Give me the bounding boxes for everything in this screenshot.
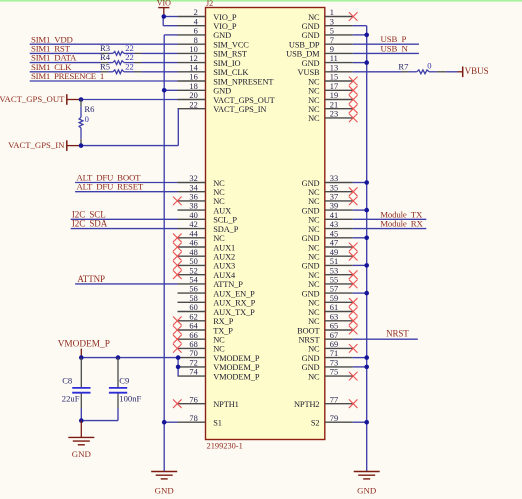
pin 2 (VIO_P) — [178, 8, 237, 22]
svg-text:59: 59 — [330, 294, 338, 303]
pin 34 (NC) — [178, 183, 226, 197]
svg-text:NC: NC — [213, 197, 225, 206]
wire pin 78 S1 to bus — [164, 421, 177, 423]
pin 33 (GND) — [302, 174, 353, 188]
junction S2/bus — [364, 420, 369, 425]
pin 15 (NC) — [308, 73, 357, 87]
junction S1/bus — [162, 420, 167, 425]
svg-text:NC: NC — [308, 105, 320, 114]
ground symbol below C8 — [68, 421, 94, 459]
wire pin 39 GND to bus — [353, 209, 367, 211]
svg-text:NC: NC — [308, 243, 320, 252]
svg-text:GND: GND — [302, 262, 320, 271]
wire SIM1__RST to R3 — [30, 52, 101, 54]
wire R4 to pin — [142, 62, 178, 64]
wire VIO to pin 4 — [163, 17, 177, 26]
svg-text:7: 7 — [330, 36, 334, 45]
pin 39 (GND) — [302, 202, 353, 216]
net label Module_RX — [380, 219, 423, 229]
svg-text:NC: NC — [308, 87, 320, 96]
net label ATTNP — [77, 274, 105, 284]
pin 46 (AUX1) — [173, 239, 235, 253]
wire pin 79 S2 to bus — [353, 421, 367, 423]
svg-text:NC: NC — [213, 336, 225, 345]
svg-text:NRST: NRST — [386, 329, 409, 339]
pin 75 (NC) — [308, 368, 357, 382]
svg-text:USB_DP: USB_DP — [289, 41, 320, 50]
svg-text:NC: NC — [213, 345, 225, 354]
pin 61 (NC) — [308, 303, 357, 317]
pin 56 (AUX_EN_P) — [178, 285, 256, 299]
junction pin18/bus — [162, 88, 167, 93]
wire pin 5 GND to bus — [353, 34, 367, 36]
svg-text:2199230-1: 2199230-1 — [207, 442, 243, 451]
wire pin 45 GND to bus — [353, 237, 367, 239]
wire I2C_SCL to pin 40 — [71, 218, 178, 220]
junction R6 top — [79, 97, 84, 102]
svg-text:GND: GND — [213, 87, 231, 96]
svg-text:79: 79 — [330, 414, 338, 423]
pin 23 (NC) — [308, 110, 357, 124]
svg-text:NC: NC — [308, 77, 320, 86]
net label SIM1_VDD — [31, 34, 73, 44]
svg-text:AUX: AUX — [213, 206, 231, 215]
wire pin 3 GND to right bus — [353, 25, 367, 27]
svg-text:RX_P: RX_P — [213, 317, 234, 326]
junction pin 51/bus — [364, 263, 369, 268]
top border line — [0, 0, 522, 2]
svg-text:74: 74 — [189, 368, 198, 377]
svg-text:GND: GND — [302, 354, 320, 363]
pin 59 (NC) — [308, 294, 357, 308]
ground symbol left bus — [151, 472, 177, 496]
net label I2C_SDA — [72, 219, 108, 229]
svg-text:SIM_VCC: SIM_VCC — [213, 41, 249, 50]
svg-text:0: 0 — [427, 61, 431, 71]
wire ATTNP to pin 54 — [75, 283, 177, 285]
resistor R4 22 — [100, 52, 142, 64]
pin 13 (VUSB) — [298, 63, 353, 77]
svg-text:AUX2: AUX2 — [213, 253, 235, 262]
svg-text:R6: R6 — [84, 104, 95, 114]
svg-text:SIM1 PRESENCE 1: SIM1 PRESENCE 1 — [31, 71, 104, 81]
junction pin 33/bus — [364, 180, 369, 185]
pin 52 (AUX4) — [173, 266, 236, 280]
svg-text:13: 13 — [330, 63, 338, 72]
pin 48 (AUX2) — [173, 248, 235, 262]
svg-text:NC: NC — [213, 234, 225, 243]
svg-text:SIM_CLK: SIM_CLK — [213, 68, 248, 77]
junction pin70 — [176, 355, 181, 360]
svg-text:NC: NC — [213, 179, 225, 188]
svg-text:50: 50 — [189, 257, 197, 266]
pin 16 (SIM_NPRESENT) — [178, 73, 274, 87]
svg-text:51: 51 — [330, 257, 338, 266]
power port VMODEM_P — [58, 340, 110, 358]
net label ALT_DFU_BOOT — [77, 173, 142, 183]
junction pin72 — [176, 365, 181, 370]
svg-text:BOOT: BOOT — [297, 326, 319, 335]
svg-text:11: 11 — [330, 54, 338, 63]
pin 1 (NC) — [308, 8, 357, 22]
wire SIM1__DATA to R4 — [30, 62, 101, 64]
junction pin 57/bus — [364, 291, 369, 296]
svg-text:63: 63 — [330, 312, 338, 321]
junction C8 bottom — [79, 418, 84, 423]
wire NRST pin 67 — [353, 338, 418, 340]
pin 73 (GND) — [302, 359, 353, 373]
net label USB_N — [381, 43, 409, 53]
svg-text:48: 48 — [189, 248, 197, 257]
pin 60 (AUX_TX_P) — [178, 303, 256, 317]
port VACT_GPS_OUT — [0, 94, 81, 105]
net label ALT_DFU_RESET — [77, 182, 144, 192]
pin 14 (SIM_CLK) — [178, 63, 249, 77]
pin 6 (GND) — [178, 27, 232, 41]
svg-text:42: 42 — [189, 220, 197, 229]
pin 37 (NC) — [308, 193, 357, 207]
pin 63 (NC) — [308, 312, 357, 326]
designator J2 — [206, 0, 213, 8]
pin 64 (TX_P) — [173, 322, 233, 336]
wire R3 to pin — [142, 52, 178, 54]
wire pin 6 GND to left ground bus — [164, 34, 177, 36]
svg-text:68: 68 — [189, 340, 197, 349]
svg-text:57: 57 — [330, 285, 338, 294]
wire ALT_DFU_BOOT to pin 32 — [75, 182, 177, 184]
pin 19 (NC) — [308, 91, 357, 105]
wire R5 to pin — [142, 71, 178, 73]
svg-text:VACT_GPS_IN: VACT_GPS_IN — [213, 105, 266, 114]
pin 17 (NC) — [308, 82, 357, 96]
svg-text:76: 76 — [189, 395, 197, 404]
svg-text:S2: S2 — [311, 419, 320, 428]
svg-text:ATTN_P: ATTN_P — [213, 280, 243, 289]
svg-text:GND: GND — [155, 486, 174, 496]
svg-text:NC: NC — [213, 188, 225, 197]
svg-text:ALT DFU RESET: ALT DFU RESET — [77, 182, 144, 192]
svg-text:GND: GND — [357, 486, 376, 496]
svg-text:NC: NC — [308, 197, 320, 206]
svg-text:VMODEM_P: VMODEM_P — [58, 340, 110, 350]
svg-text:VACT_GPS_IN: VACT_GPS_IN — [8, 140, 65, 150]
svg-text:36: 36 — [189, 193, 197, 202]
svg-text:SIM_NPRESENT: SIM_NPRESENT — [213, 77, 273, 86]
svg-text:ATTNP: ATTNP — [77, 274, 105, 284]
svg-text:44: 44 — [189, 229, 198, 238]
svg-text:C8: C8 — [62, 376, 72, 386]
svg-text:40: 40 — [189, 211, 197, 220]
wire VMODEM_P rail — [81, 357, 177, 359]
junction pin 71/bus — [364, 355, 369, 360]
svg-text:SIM_RST: SIM_RST — [213, 50, 247, 59]
svg-text:AUX3: AUX3 — [213, 262, 235, 271]
svg-text:NC: NC — [308, 225, 320, 234]
svg-text:10: 10 — [189, 45, 197, 54]
svg-text:NC: NC — [308, 372, 320, 381]
svg-text:AUX_RX_P: AUX_RX_P — [213, 299, 255, 308]
svg-text:NC: NC — [308, 317, 320, 326]
wire VACT_GPS_IN to pin 22 — [81, 109, 179, 146]
pin 55 (NC) — [308, 276, 357, 290]
pin 3 (GND) — [302, 17, 353, 31]
svg-text:AUX1: AUX1 — [213, 243, 235, 252]
capacitor C9 100nF — [109, 358, 142, 421]
svg-text:71: 71 — [330, 349, 338, 358]
resistor R3 22 — [100, 43, 142, 55]
svg-text:NRST: NRST — [298, 336, 319, 345]
svg-text:NC: NC — [308, 299, 320, 308]
svg-text:49: 49 — [330, 248, 338, 257]
svg-text:GND: GND — [302, 363, 320, 372]
svg-text:60: 60 — [189, 303, 197, 312]
svg-text:43: 43 — [330, 220, 338, 229]
wire Module_RX pin 43 — [353, 228, 427, 230]
svg-text:33: 33 — [330, 174, 338, 183]
pin 43 (NC) — [308, 220, 353, 234]
pin 62 (RX_P) — [173, 312, 233, 326]
pin 69 (NC) — [308, 340, 357, 354]
svg-text:AUX_TX_P: AUX_TX_P — [213, 308, 255, 317]
svg-text:R5: R5 — [100, 61, 110, 71]
pin 53 (NC) — [308, 266, 357, 280]
svg-text:67: 67 — [330, 331, 338, 340]
pin 5 (GND) — [302, 27, 353, 41]
junction C8 tap — [79, 355, 84, 360]
pin 4 (VIO_P) — [178, 17, 237, 31]
pin 47 (NC) — [308, 239, 357, 253]
wire pin 13 VUSB to R7 — [353, 71, 402, 73]
svg-text:75: 75 — [330, 368, 338, 377]
svg-text:22: 22 — [189, 100, 197, 109]
resistor R5 22 — [100, 61, 142, 73]
svg-text:18: 18 — [189, 82, 197, 91]
svg-text:USB N: USB N — [381, 43, 409, 53]
svg-text:GND: GND — [302, 206, 320, 215]
svg-text:16: 16 — [189, 73, 197, 82]
svg-text:NC: NC — [308, 280, 320, 289]
svg-text:VMODEM_P: VMODEM_P — [213, 363, 260, 372]
svg-text:17: 17 — [330, 82, 338, 91]
svg-text:NC: NC — [308, 114, 320, 123]
svg-text:S1: S1 — [213, 419, 222, 428]
wire SIM1__CLK to R5 — [30, 71, 101, 73]
svg-text:72: 72 — [189, 359, 197, 368]
svg-text:NC: NC — [308, 216, 320, 225]
svg-text:34: 34 — [189, 183, 198, 192]
pin 38 (AUX) — [178, 202, 232, 216]
wire pin 18 GND to bus — [164, 89, 177, 91]
svg-text:J2: J2 — [206, 0, 213, 8]
svg-text:55: 55 — [330, 276, 338, 285]
connector J2 body (2199230-1) — [206, 8, 325, 440]
svg-text:3: 3 — [330, 17, 334, 26]
pin 66 (NC) — [173, 331, 225, 345]
svg-text:NC: NC — [308, 13, 320, 22]
net label SIM1_PRESENCE_1 — [31, 71, 104, 81]
svg-text:9: 9 — [330, 45, 334, 54]
junction R6 bottom — [79, 143, 84, 148]
wire pin 51 GND to bus — [353, 264, 367, 266]
pin 77 (NPTH2) — [294, 395, 357, 409]
svg-text:15: 15 — [330, 73, 338, 82]
pin 57 (GND) — [302, 285, 353, 299]
port VBUS — [458, 66, 489, 77]
svg-text:NC: NC — [308, 308, 320, 317]
wire R7 to VBUS — [446, 71, 458, 73]
svg-text:VIO: VIO — [157, 0, 171, 8]
svg-text:VIO_P: VIO_P — [213, 13, 237, 22]
svg-text:20: 20 — [189, 91, 197, 100]
svg-text:TX_P: TX_P — [213, 326, 233, 335]
svg-text:VBUS: VBUS — [465, 66, 489, 76]
svg-text:37: 37 — [330, 193, 338, 202]
svg-text:VMODEM_P: VMODEM_P — [213, 372, 260, 381]
svg-text:66: 66 — [189, 331, 197, 340]
wire USB_P pin 7 — [353, 43, 419, 45]
pin 49 (NC) — [308, 248, 357, 262]
svg-text:61: 61 — [330, 303, 338, 312]
pin 79 (S2) — [311, 414, 353, 428]
junction C9 tap — [116, 355, 121, 360]
svg-text:NC: NC — [308, 271, 320, 280]
wire USB_N pin 9 — [353, 52, 419, 54]
junction pin 11/bus — [364, 60, 369, 65]
wire joining pins 70 72 74 — [177, 358, 179, 377]
pin 65 (BOOT) — [297, 322, 357, 336]
svg-text:56: 56 — [189, 285, 197, 294]
pin 67 (NRST) — [298, 331, 352, 345]
svg-text:64: 64 — [189, 322, 198, 331]
pin 35 (NC) — [308, 183, 357, 197]
wire VACT_GPS_OUT to pin 20 — [81, 99, 178, 101]
wire SIM1_PRESENCE_1 to pin 16 — [30, 80, 178, 82]
wire pin 57 GND to bus — [353, 292, 367, 294]
svg-text:SIM_IO: SIM_IO — [213, 59, 240, 68]
pin 54 (ATTN_P) — [178, 276, 244, 290]
pin 41 (NC) — [308, 211, 353, 225]
pin 78 (S1) — [178, 414, 222, 428]
junction pin 73/bus — [364, 365, 369, 370]
part number 2199230-1 — [207, 442, 243, 451]
svg-text:NC: NC — [308, 96, 320, 105]
svg-text:19: 19 — [330, 91, 338, 100]
svg-text:73: 73 — [330, 359, 338, 368]
pin 21 (NC) — [308, 100, 357, 114]
net label SIM1__CLK — [31, 62, 72, 72]
svg-text:78: 78 — [189, 414, 197, 423]
pin 72 (VMODEM_P) — [178, 359, 260, 373]
svg-text:NPTH1: NPTH1 — [213, 400, 239, 409]
svg-text:47: 47 — [330, 239, 338, 248]
pin 8 (SIM_VCC) — [178, 36, 250, 50]
pin 58 (AUX_RX_P) — [178, 294, 256, 308]
svg-text:GND: GND — [302, 59, 320, 68]
svg-text:58: 58 — [189, 294, 197, 303]
wire C8 C9 ground link — [81, 420, 118, 422]
net label NRST — [386, 329, 409, 339]
svg-text:12: 12 — [189, 54, 197, 63]
junction VIO node — [162, 14, 167, 19]
svg-text:22: 22 — [125, 61, 134, 71]
capacitor C8 22uF — [62, 358, 91, 421]
svg-text:R7: R7 — [398, 61, 409, 71]
svg-text:C9: C9 — [119, 376, 129, 386]
svg-text:AUX4: AUX4 — [213, 271, 236, 280]
svg-text:GND: GND — [213, 31, 231, 40]
svg-text:39: 39 — [330, 202, 338, 211]
svg-text:21: 21 — [330, 100, 338, 109]
svg-text:65: 65 — [330, 322, 338, 331]
pin 68 (NC) — [173, 340, 225, 354]
wire pin 73 GND to bus — [353, 366, 367, 368]
svg-text:0: 0 — [85, 114, 89, 124]
svg-text:1: 1 — [330, 8, 334, 17]
svg-text:VIO_P: VIO_P — [213, 22, 237, 31]
svg-text:VMODEM_P: VMODEM_P — [213, 354, 260, 363]
pin 51 (GND) — [302, 257, 353, 271]
svg-text:GND: GND — [72, 449, 91, 459]
resistor R7 0 — [398, 61, 445, 74]
pin 7 (USB_DP) — [289, 36, 353, 50]
wire pin 71 GND to bus — [353, 357, 367, 359]
net label SIM1__RST — [31, 44, 71, 54]
svg-text:6: 6 — [194, 27, 198, 36]
svg-text:69: 69 — [330, 340, 338, 349]
svg-text:8: 8 — [194, 36, 198, 45]
pin 10 (SIM_RST) — [178, 45, 247, 59]
svg-text:41: 41 — [330, 211, 338, 220]
svg-text:46: 46 — [189, 239, 197, 248]
svg-text:38: 38 — [189, 202, 197, 211]
net label I2C_SCL — [72, 209, 106, 219]
wire Module_TX pin 41 — [353, 218, 427, 220]
pin 76 (NPTH1) — [173, 395, 238, 409]
wire pin 33 GND to bus — [353, 182, 367, 184]
net label USB_P — [381, 34, 407, 44]
svg-text:GND: GND — [302, 289, 320, 298]
svg-text:NC: NC — [308, 345, 320, 354]
pin 44 (NC) — [173, 229, 225, 243]
svg-text:23: 23 — [330, 110, 338, 119]
svg-text:NPTH2: NPTH2 — [294, 400, 320, 409]
svg-text:Module RX: Module RX — [380, 219, 423, 229]
pin 74 (VMODEM_P) — [178, 368, 260, 382]
right GND bus wire — [366, 26, 368, 471]
svg-text:GND: GND — [302, 22, 320, 31]
svg-text:GND: GND — [302, 179, 320, 188]
junction pin 45/bus — [364, 236, 369, 241]
pin 70 (VMODEM_P) — [178, 349, 260, 363]
wire VIO to pin 2 — [164, 16, 178, 18]
resistor R6 0 — [79, 100, 95, 146]
net label Module_TX — [380, 209, 423, 219]
svg-text:AUX_EN_P: AUX_EN_P — [213, 289, 255, 298]
pin 9 (USB_DM) — [286, 45, 353, 59]
pin 45 (GND) — [302, 229, 353, 243]
svg-text:70: 70 — [189, 349, 197, 358]
svg-text:45: 45 — [330, 229, 338, 238]
junction pin 39/bus — [364, 208, 369, 213]
wire ALT_DFU_RESET to pin 34 — [75, 191, 177, 193]
svg-text:52: 52 — [189, 266, 197, 275]
svg-text:VUSB: VUSB — [298, 68, 320, 77]
svg-text:SCL_P: SCL_P — [213, 216, 237, 225]
pin 32 (NC) — [178, 174, 226, 188]
junction pin 5/bus — [364, 33, 369, 38]
pin 40 (SCL_P) — [178, 211, 238, 225]
power port VIO — [157, 0, 171, 17]
